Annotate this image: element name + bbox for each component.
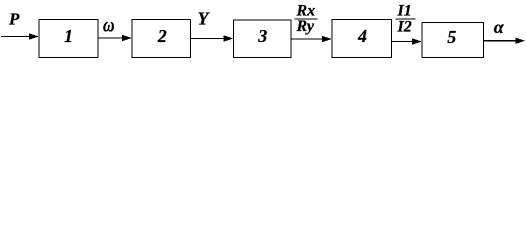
svg-text:I1: I1 <box>397 3 412 20</box>
svg-text:5: 5 <box>447 27 456 47</box>
svg-text:α: α <box>494 17 505 37</box>
svg-text:Rx: Rx <box>296 3 316 20</box>
label alpha <box>494 17 505 37</box>
svg-text:3: 3 <box>257 26 267 46</box>
block 5 <box>422 23 484 58</box>
svg-text:P: P <box>8 10 20 29</box>
input arrow P <box>1 33 39 39</box>
output arrow alpha <box>484 38 525 44</box>
block 3 <box>234 20 292 58</box>
label P <box>8 10 20 29</box>
wire block2 to block3 <box>191 35 233 41</box>
label Y <box>198 9 211 29</box>
svg-text:I2: I2 <box>397 19 412 36</box>
svg-text:Ry: Ry <box>296 18 315 35</box>
block 4 <box>332 20 392 58</box>
wire block3 to block4 <box>292 36 332 42</box>
svg-text:1: 1 <box>64 26 73 46</box>
block 1 <box>39 20 98 58</box>
svg-text:ω: ω <box>103 14 115 36</box>
svg-text:4: 4 <box>357 26 367 46</box>
block 2 <box>132 20 191 58</box>
wire block4 to block5 <box>392 38 422 44</box>
wire block1 to block2 <box>99 35 132 41</box>
label omega <box>103 14 115 36</box>
svg-text:2: 2 <box>157 26 167 46</box>
label I1 over I2 fraction <box>396 3 416 36</box>
label Rx over Ry fraction <box>295 3 318 36</box>
